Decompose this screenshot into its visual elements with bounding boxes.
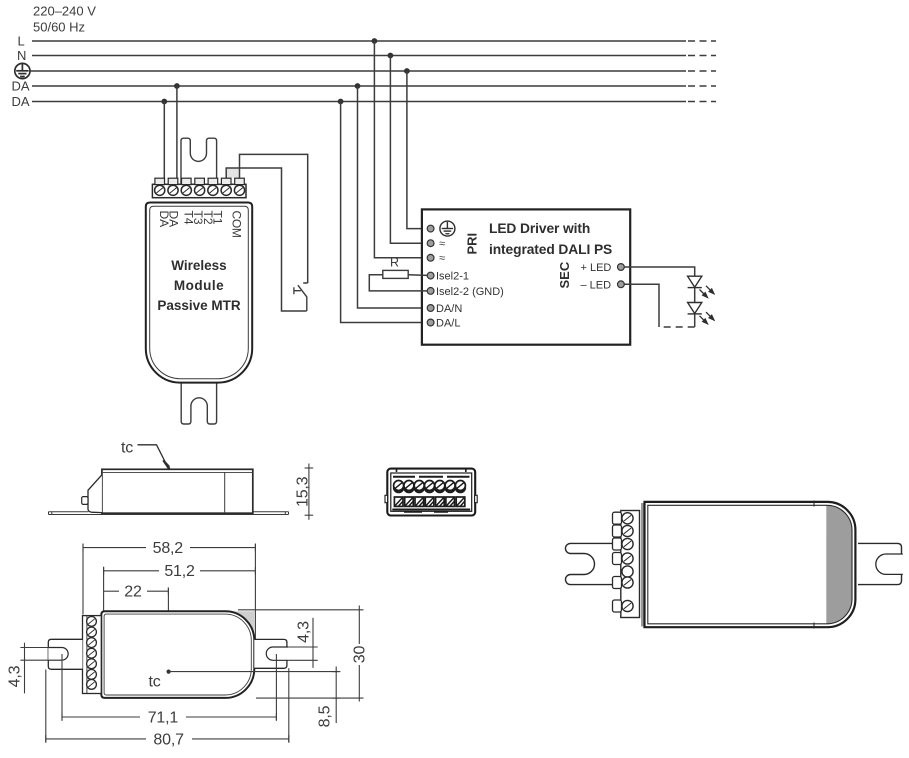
svg-text:71,1: 71,1 [148, 709, 179, 726]
svg-text:DA: DA [167, 211, 181, 228]
wire DA upper rail [32, 85, 686, 87]
svg-text:30: 30 [352, 646, 369, 664]
dimension 4,3 left [20, 643, 48, 694]
wire N rail [32, 55, 686, 57]
terminal screw caps (7) [155, 178, 244, 184]
dimension 58,2 [83, 544, 255, 641]
LED D1 arrows [700, 286, 714, 298]
terminal block (top view, left) [83, 616, 102, 694]
svg-text:8,5: 8,5 [317, 705, 334, 727]
driver pin -LED [618, 281, 625, 288]
terminal screw nub (side view) [82, 497, 88, 505]
driver pin +LED [618, 264, 625, 271]
wire earth rail [31, 70, 687, 72]
svg-text:R: R [390, 256, 399, 270]
earth symbol in driver [440, 221, 455, 236]
centerline tc vertical [167, 588, 169, 672]
dimension 22 [104, 588, 169, 595]
mounting tab top of wireless module [181, 138, 217, 184]
driver pin earth [427, 225, 434, 232]
junction earth to driver [404, 68, 410, 74]
wire DA lower to driver DA/L [341, 102, 428, 323]
inner outline (right module) [648, 505, 852, 624]
SECTION: schematic top [12, 4, 717, 425]
svg-text:DA: DA [12, 94, 30, 109]
dashed wire (more LEDs) [659, 326, 695, 328]
driver pin DA/N [427, 305, 434, 312]
wire LED D1 to D2 [694, 288, 696, 303]
earth symbol (protective earth, circled) [15, 63, 30, 78]
right mounting tab (right module) [858, 543, 902, 584]
svg-text:220–240 V: 220–240 V [33, 4, 96, 19]
junction DA upper to driver [355, 83, 361, 89]
terminal block of wireless module [152, 184, 246, 197]
right tab slot [876, 554, 903, 574]
module body (top view) [101, 611, 254, 698]
svg-text:Wireless: Wireless [171, 258, 226, 273]
svg-text:COM: COM [230, 211, 244, 238]
svg-text:PRI: PRI [465, 233, 480, 255]
svg-text:+ LED: + LED [581, 262, 612, 274]
terminal block front view outer housing [387, 469, 475, 516]
gray gap strip [641, 503, 644, 627]
side nubs [385, 495, 388, 502]
dimension 4,3 right [288, 618, 318, 668]
dimension 30 [238, 606, 364, 702]
svg-text:LED Driver with: LED Driver with [489, 221, 590, 236]
svg-text:Passive MTR: Passive MTR [157, 298, 241, 313]
svg-text:22: 22 [124, 583, 142, 600]
gray crescent (right module) [826, 505, 852, 624]
driver pin L [427, 254, 434, 261]
tc center marker [167, 670, 171, 674]
internal division line (side view) [224, 472, 226, 513]
svg-text:DA/L: DA/L [436, 318, 460, 330]
svg-text:integrated DALI PS: integrated DALI PS [489, 242, 612, 257]
SECTION: side view [49, 440, 314, 520]
svg-text:4,3: 4,3 [296, 621, 313, 643]
tc leader line with arrow [138, 445, 167, 465]
screw heads (right module) [622, 513, 633, 612]
svg-text:– LED: – LED [581, 279, 612, 291]
LED driver box U1 [422, 209, 630, 344]
SECTION: bottom right module [565, 501, 902, 629]
svg-text:tc: tc [121, 440, 133, 457]
driver pin Isel2-1 [427, 272, 434, 279]
wire DA upper to module terminal 2 [176, 86, 178, 183]
LED D2 arrows [700, 312, 714, 324]
junction DA upper to module [174, 83, 180, 89]
left fork mounting tab (right module) [565, 543, 620, 584]
wire L rail [32, 40, 686, 42]
inner housing lines [391, 473, 472, 511]
junction L to driver [372, 38, 378, 44]
module body (side view) [102, 469, 253, 513]
svg-text:tc: tc [149, 674, 161, 691]
svg-text:50/60 Hz: 50/60 Hz [33, 20, 85, 35]
screw caps (right module) [613, 512, 622, 612]
svg-text:Module: Module [174, 278, 224, 293]
junction DA lower to driver [338, 99, 344, 105]
wire LED D2 down [694, 314, 696, 327]
left tab slot [48, 648, 68, 661]
mounting tab bottom of wireless module [181, 378, 216, 424]
svg-text:58,2: 58,2 [153, 540, 184, 557]
wire resistor to Isel2-1 [408, 274, 427, 277]
LED D1 [688, 276, 702, 287]
svg-text:T1: T1 [211, 211, 225, 225]
gray corner patch (top right of body) [225, 611, 254, 640]
base mounting plate (side view) [49, 512, 289, 515]
dimension 51,2 [104, 567, 256, 612]
junction DA lower to module [161, 99, 167, 105]
svg-text:L: L [18, 34, 25, 49]
dimension 80,7 [46, 668, 289, 742]
wire L to driver pin [374, 41, 427, 258]
svg-text:≈: ≈ [439, 253, 445, 265]
wire +LED to LED chain [624, 267, 695, 276]
module body (right module) [645, 502, 856, 627]
shaded patch behind T1/COM wires [226, 169, 239, 178]
dimension 15,3 [305, 464, 314, 520]
svg-text:N: N [17, 48, 26, 63]
driver pin DA/L [427, 319, 434, 326]
wire resistor to Isel2-2 [369, 275, 427, 291]
svg-text:DA/N: DA/N [436, 303, 462, 315]
svg-text:Isel2-1: Isel2-1 [436, 271, 469, 283]
cage openings row (7 hatched squares) [394, 497, 464, 506]
right tab slot [266, 647, 288, 660]
terminal screws (top view, 7) [87, 617, 97, 690]
tc horizontal reference line [169, 671, 339, 673]
wire DA upper to driver DA/N [358, 86, 428, 308]
right mounting tab (top view) [254, 639, 287, 668]
SECTION: terminal front view [385, 469, 477, 516]
driver pin Isel2-2 [427, 288, 434, 295]
junction N to driver [388, 53, 394, 59]
top cover line (side view) [102, 471, 253, 473]
svg-text:DA: DA [12, 79, 30, 94]
wire DA lower rail [32, 101, 686, 103]
svg-text:≈: ≈ [439, 238, 445, 250]
driver pin N [427, 240, 434, 247]
segment tick marks [813, 501, 815, 507]
svg-text:Isel2-2 (GND): Isel2-2 (GND) [436, 286, 504, 298]
switch blade [298, 285, 307, 311]
svg-text:15,3: 15,3 [294, 476, 311, 507]
wire clamps row (7 U shapes) [394, 488, 465, 493]
dimension 71,1 [62, 654, 276, 721]
terminal strip (right module) [621, 511, 640, 618]
switch actuator [294, 287, 301, 294]
corner notches [397, 469, 466, 512]
terminal end profile (side view) [88, 475, 102, 513]
left mounting tab (top view) [48, 639, 82, 669]
SECTION: top view with dimensions [7, 540, 369, 749]
wire return to -LED [624, 284, 659, 327]
terminal screws (7) [155, 185, 245, 195]
wire N to driver pin [390, 56, 427, 244]
LED D2 [688, 303, 702, 314]
svg-text:51,2: 51,2 [164, 563, 195, 580]
dimension 8,5 [332, 667, 340, 724]
wireless module body [146, 203, 252, 383]
wire T1 to switch [226, 168, 307, 311]
screws row (7) [394, 481, 466, 491]
svg-text:80,7: 80,7 [153, 731, 184, 748]
svg-text:4,3: 4,3 [7, 665, 24, 687]
wire COM to switch [240, 154, 308, 283]
wire DA lower to module terminal 1 [163, 102, 165, 184]
wire earth to driver pin [407, 71, 427, 229]
resistor R1 [383, 270, 408, 278]
svg-text:SEC: SEC [557, 261, 572, 288]
